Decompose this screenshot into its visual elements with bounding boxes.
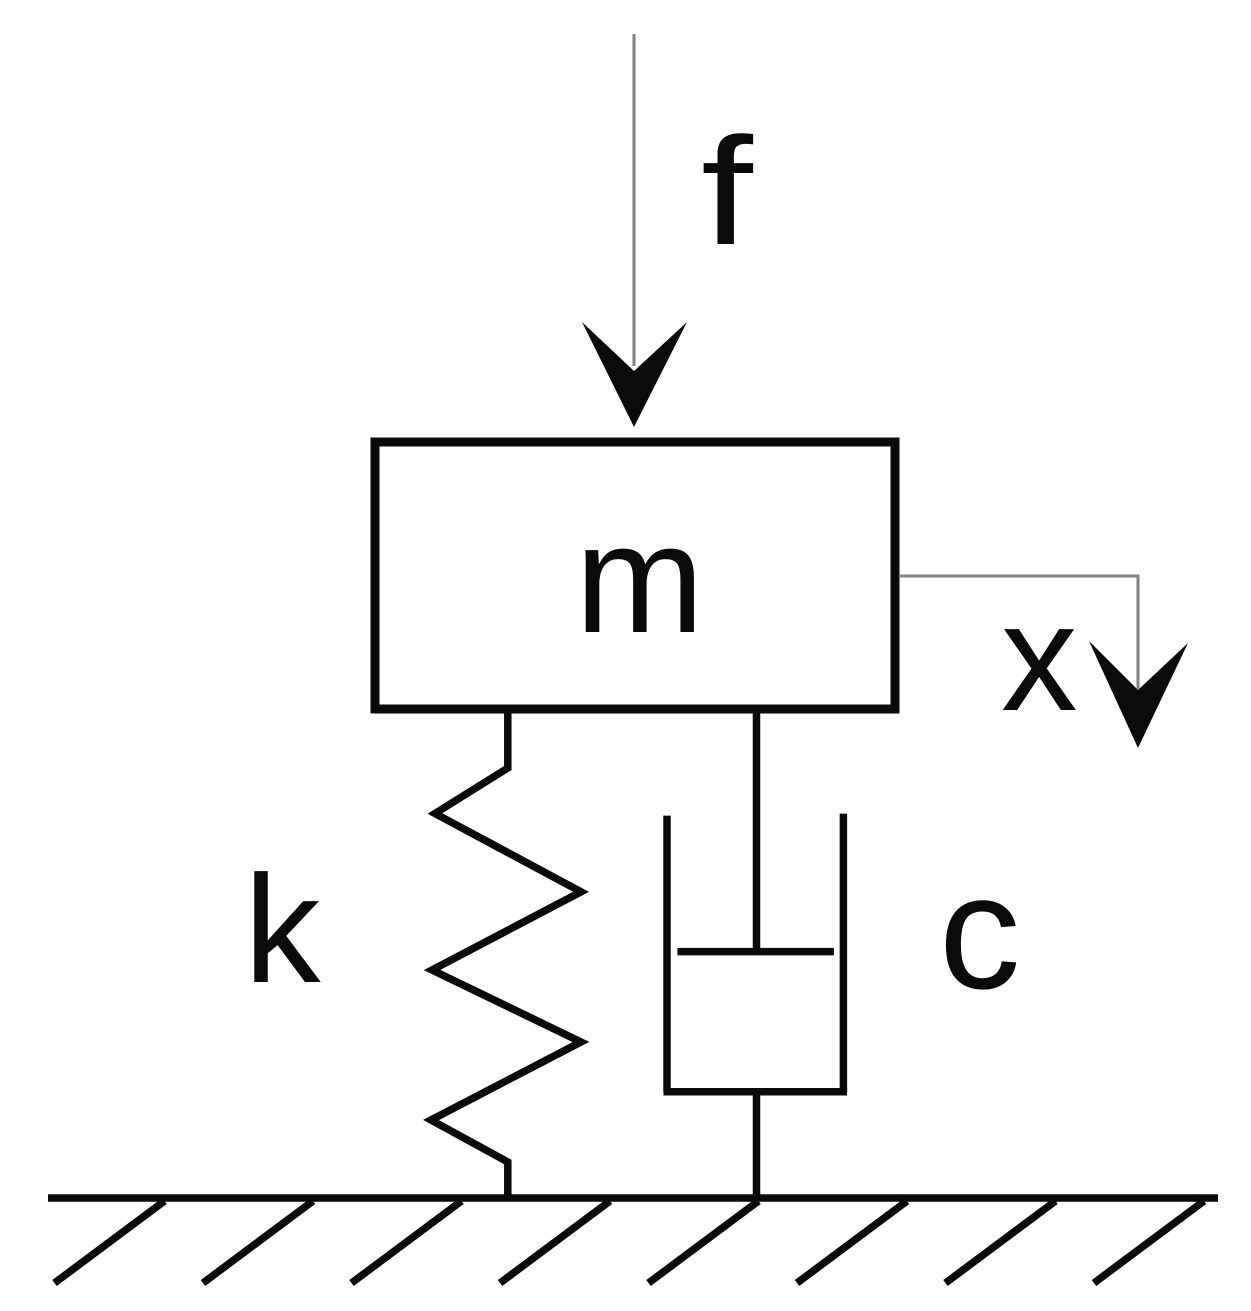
mass m — [375, 442, 895, 709]
ground hatch 3 — [352, 1201, 462, 1283]
ground hatch 4 — [500, 1201, 610, 1283]
wire: force arrow shaft — [633, 34, 636, 366]
ground hatch 6 — [797, 1201, 907, 1283]
ground line — [48, 1194, 1218, 1202]
damper C: piston rod top — [753, 706, 761, 950]
spring k — [431, 706, 581, 1198]
label k — [244, 844, 321, 1015]
label x — [1001, 572, 1078, 743]
damper C: piston plate — [677, 948, 834, 956]
label m — [575, 492, 704, 665]
ground hatch 5 — [649, 1201, 759, 1283]
ground hatch 1 — [55, 1201, 165, 1283]
svg-text:m: m — [575, 492, 704, 665]
svg-text:k: k — [244, 844, 321, 1015]
svg-text:f: f — [701, 107, 753, 277]
svg-text:c: c — [939, 840, 1021, 1023]
ground hatch 2 — [203, 1201, 313, 1283]
displacement arrowhead x — [1089, 641, 1188, 748]
force arrowhead f — [582, 322, 687, 427]
damper C: rod bottom — [753, 1092, 761, 1198]
svg-text:x: x — [1001, 572, 1078, 743]
damper C: cylinder left wall — [663, 816, 671, 1092]
damper C: cylinder bottom — [664, 1088, 848, 1096]
damper C: cylinder right wall — [840, 814, 848, 1092]
ground hatch 8 — [1094, 1201, 1204, 1283]
ground hatch 7 — [946, 1201, 1056, 1283]
label c — [939, 840, 1021, 1023]
wire: displacement leader — [900, 576, 1138, 689]
label f — [701, 107, 753, 277]
